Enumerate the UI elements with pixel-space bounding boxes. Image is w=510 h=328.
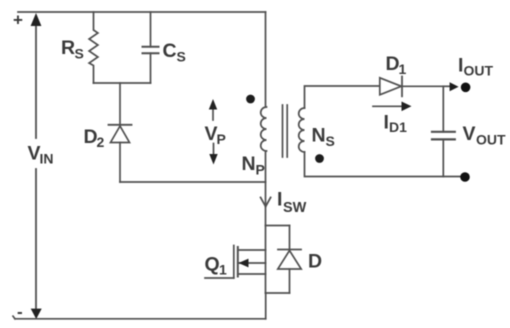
svg-text:N: N bbox=[312, 125, 326, 147]
label D bbox=[308, 251, 322, 273]
wire drain branch bbox=[266, 225, 290, 227]
svg-text:D: D bbox=[84, 126, 98, 148]
diode D body bbox=[289, 226, 291, 250]
arrow Iout bbox=[450, 82, 459, 91]
wire output node stub bbox=[443, 85, 450, 87]
svg-text:V: V bbox=[463, 123, 476, 145]
arrow Isw bbox=[261, 198, 271, 207]
node output + terminal dot bbox=[461, 83, 471, 93]
wire secondary bottom bbox=[305, 152, 461, 177]
transformer secondary winding Ns bbox=[299, 108, 305, 152]
svg-text:IN: IN bbox=[40, 151, 54, 167]
arrow Vp down bbox=[213, 144, 215, 156]
label Np bbox=[242, 153, 265, 178]
wire clamp to D2 bbox=[119, 83, 121, 125]
label Iout bbox=[458, 55, 494, 79]
svg-text:R: R bbox=[61, 37, 75, 59]
wire secondary top bbox=[305, 86, 380, 108]
svg-text:1: 1 bbox=[219, 262, 227, 278]
svg-text:S: S bbox=[75, 46, 84, 62]
capacitor Cs bbox=[150, 12, 152, 47]
label D1 bbox=[386, 53, 407, 77]
svg-text:D1: D1 bbox=[389, 119, 407, 135]
label Q1 bbox=[205, 254, 228, 278]
diode D2 bbox=[109, 124, 132, 126]
label Ns bbox=[312, 125, 335, 150]
label Rs bbox=[61, 37, 84, 62]
svg-text:OUT: OUT bbox=[476, 132, 506, 148]
diode D1 bbox=[380, 78, 402, 95]
resistor Rs bbox=[89, 12, 98, 83]
label Vout bbox=[463, 123, 507, 148]
wire diode to output node bbox=[402, 85, 443, 87]
svg-text:I: I bbox=[277, 189, 282, 211]
label Id1 bbox=[384, 112, 408, 136]
svg-text:P: P bbox=[217, 131, 226, 147]
wire switch to bottom bus bbox=[265, 293, 267, 319]
svg-text:P: P bbox=[256, 162, 265, 178]
svg-text:D: D bbox=[386, 53, 400, 75]
node secondary polarity dot bbox=[315, 154, 324, 163]
arrow Vp up bbox=[212, 108, 214, 120]
label Isw bbox=[277, 189, 307, 217]
wire clamp node to switch node bbox=[120, 181, 266, 183]
svg-text:2: 2 bbox=[97, 134, 105, 150]
label D2 bbox=[84, 126, 105, 150]
label Vp bbox=[205, 123, 226, 147]
arrow Id1 bbox=[373, 105, 402, 107]
transformer core bbox=[282, 105, 284, 157]
wire clamp bottom bbox=[94, 82, 151, 84]
svg-text:+: + bbox=[13, 11, 23, 30]
svg-text:C: C bbox=[163, 40, 177, 62]
svg-text:Q: Q bbox=[205, 254, 220, 276]
svg-text:S: S bbox=[177, 49, 186, 65]
svg-text:S: S bbox=[326, 133, 335, 149]
svg-text:SW: SW bbox=[283, 200, 307, 216]
wire bottom bus bbox=[15, 318, 266, 320]
wire Vin arrow down bbox=[35, 169, 37, 308]
transistor Q1 mosfet bbox=[233, 246, 235, 279]
node output - terminal dot bbox=[460, 172, 470, 182]
wire top bus bbox=[18, 11, 266, 13]
label Vin bbox=[28, 143, 54, 167]
transformer primary winding Np bbox=[261, 107, 267, 151]
wire drain vertical bbox=[265, 226, 267, 294]
node + terminal label bbox=[13, 11, 23, 30]
svg-text:D: D bbox=[308, 251, 322, 273]
wire source branch bbox=[266, 292, 290, 294]
label Cs bbox=[163, 40, 186, 65]
wire primary to switch bbox=[265, 151, 267, 226]
node - terminal label bbox=[17, 303, 23, 322]
svg-text:1: 1 bbox=[399, 61, 407, 77]
svg-text:N: N bbox=[242, 153, 256, 175]
wire primary drop bbox=[265, 12, 267, 107]
wire Vin arrow up bbox=[35, 25, 37, 138]
node primary polarity dot bbox=[246, 95, 255, 104]
svg-text:OUT: OUT bbox=[464, 63, 494, 79]
capacitor output bbox=[442, 86, 444, 132]
